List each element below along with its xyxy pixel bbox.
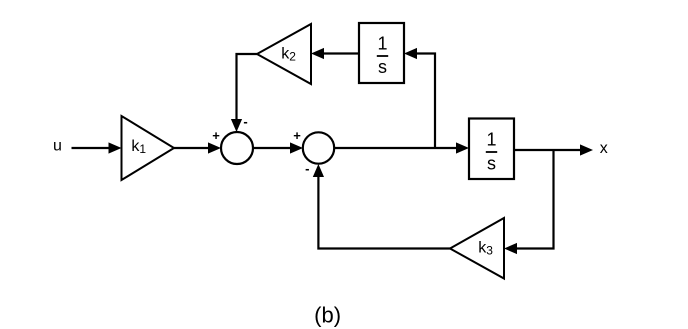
wire k1 to summing junction S1 xyxy=(174,142,221,153)
sign + at S1 input xyxy=(212,128,220,143)
svg-text:+: + xyxy=(293,128,301,143)
integrator U2 block 1/s xyxy=(469,119,514,180)
wire S1 to summing junction S2 xyxy=(253,142,303,153)
caption (b) xyxy=(314,303,341,328)
sign + at S2 input xyxy=(293,128,301,143)
svg-text:-: - xyxy=(305,161,309,176)
integrator U1 block 1/s xyxy=(359,23,404,83)
svg-text:u: u xyxy=(53,138,62,155)
svg-text:(b): (b) xyxy=(314,303,341,328)
sign - at S2 bottom input xyxy=(305,161,309,176)
summing junction S2 xyxy=(303,132,334,163)
wire tap up to integrator U1 input xyxy=(404,48,435,148)
svg-text:+: + xyxy=(212,128,220,143)
svg-text:x: x xyxy=(600,140,608,157)
svg-text:s: s xyxy=(378,57,387,77)
svg-text:s: s xyxy=(487,154,496,174)
sign - at S1 top input xyxy=(243,114,247,129)
svg-text:1: 1 xyxy=(486,130,496,150)
wire input arrow into k1 xyxy=(72,142,122,153)
wire k2 to S1 top (minus input) xyxy=(231,54,257,132)
gain k2 xyxy=(257,24,311,84)
wire S2 to integrator U2 with tap node xyxy=(334,142,469,153)
wire U2 output to x xyxy=(514,144,593,155)
svg-text:1: 1 xyxy=(377,34,387,54)
output label x xyxy=(600,140,608,157)
wire tap down to gain k3 input xyxy=(504,150,554,254)
wire k3 to S2 bottom (minus input) xyxy=(313,164,450,249)
svg-text:-: - xyxy=(243,114,247,129)
summing junction S1 xyxy=(221,132,253,164)
gain k1 xyxy=(122,116,175,180)
input label u xyxy=(53,138,62,155)
wire U1 output to gain k2 xyxy=(311,48,359,59)
gain k3 xyxy=(450,218,504,279)
